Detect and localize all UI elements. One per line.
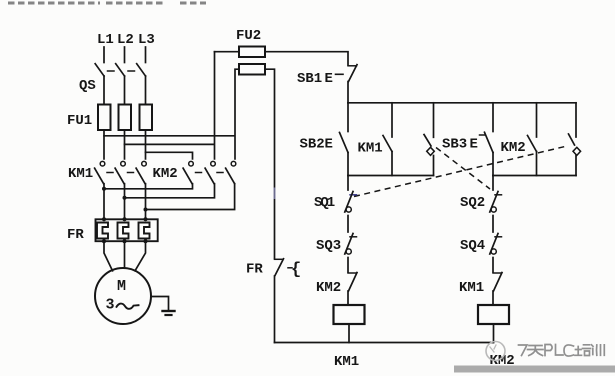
linkage dashed SQ2NO to SQ2: [436, 148, 490, 190]
wire control bottom bus left: [348, 175, 434, 177]
watermark grey bar: [454, 366, 615, 373]
svg-text:FU1: FU1: [67, 113, 92, 129]
svg-text:L2: L2: [117, 32, 134, 48]
label SQ1: [314, 195, 335, 211]
wire L1 stub: [103, 47, 105, 63]
wire L3 stub: [145, 47, 147, 63]
wire control top bus: [348, 102, 576, 104]
svg-text:FR: FR: [246, 262, 263, 278]
linkage dash SB1: [336, 73, 344, 75]
label SQ4: [460, 238, 485, 254]
label KM2 coil: [490, 353, 515, 369]
label KM1 (main): [68, 166, 93, 182]
svg-text:SB3: SB3: [442, 137, 467, 153]
svg-text:KM2: KM2: [501, 140, 526, 156]
cropped text remnant top edge: [8, 2, 206, 5]
label FR (control): [246, 262, 263, 278]
svg-text:QS: QS: [79, 78, 96, 94]
limit switch SQ1 NC: [345, 192, 357, 233]
contact SQ1 NO: [569, 103, 581, 176]
fuse FU1: [98, 105, 152, 131]
node L3: [138, 32, 155, 48]
wire KM1 outputs to FR: [104, 184, 146, 220]
watermark logo circle: [486, 342, 505, 361]
label FU1: [67, 113, 92, 129]
svg-text:E: E: [470, 137, 478, 153]
svg-text:L1: L1: [97, 32, 114, 48]
svg-text:KM2: KM2: [316, 280, 341, 296]
node L2: [117, 32, 134, 48]
wire phase bus A (L1 to KM2 pole3 and FU2): [104, 69, 239, 159]
button SB2 (NO start fwd): [340, 103, 349, 176]
svg-text:KM1: KM1: [334, 354, 359, 370]
label SB3: [442, 137, 478, 153]
label FU2: [236, 28, 261, 44]
svg-text:SQ4: SQ4: [460, 238, 485, 254]
contactor KM2 main poles: [183, 161, 236, 183]
wire FU2 fuse1 to SB1: [215, 52, 349, 65]
limit switch SQ4 NC: [490, 234, 502, 273]
svg-text:SQ3: SQ3: [316, 238, 341, 254]
svg-text:E: E: [325, 71, 333, 87]
svg-text:M: M: [117, 278, 126, 295]
switch QS: [95, 64, 145, 76]
svg-text:SB1: SB1: [297, 71, 322, 87]
svg-text:3: 3: [106, 297, 115, 314]
svg-text:L3: L3: [138, 32, 155, 48]
svg-text:KM1: KM1: [68, 166, 93, 182]
junction dots motor feed: [102, 187, 148, 243]
contact KM1 NC interlock: [493, 273, 502, 306]
svg-text:E: E: [325, 137, 333, 153]
button SB1 (NC stop): [348, 65, 357, 103]
wire KM2 output 3 crossover: [146, 184, 235, 210]
label KM1 coil: [334, 354, 359, 370]
fuse FU2: [239, 47, 265, 75]
ground: [163, 311, 175, 315]
linkage dash SB3: [480, 134, 485, 136]
wire FU2 fuse2 to FR rail: [265, 69, 275, 258]
wire coil KM1 to bottom bus: [348, 324, 350, 343]
contact KM2 aux NO: [528, 103, 537, 176]
contact SQ2 NO: [424, 103, 434, 176]
label QS: [79, 78, 96, 94]
svg-text:SQ1: SQ1: [314, 195, 335, 211]
svg-text:KM1: KM1: [358, 141, 383, 157]
contact KM2 NC interlock: [348, 273, 357, 306]
label SQ3: [316, 238, 341, 254]
svg-text:FR: FR: [67, 227, 84, 243]
button SB3 (NO start rev): [485, 103, 494, 176]
label 3~: [106, 297, 115, 314]
linkage dashed SQ1 to SQ1NO: [354, 147, 565, 197]
svg-text:KM2: KM2: [153, 166, 178, 182]
FR actuator bracket: [291, 261, 301, 280]
label SQ2: [460, 195, 485, 211]
label KM1 interlock: [459, 280, 484, 296]
label KM2 (main): [153, 166, 178, 182]
limit switch SQ3 NC: [345, 234, 357, 273]
contactor KM1 main poles: [95, 161, 147, 183]
thermal relay FR heaters: [96, 219, 158, 241]
wire control bottom bus: [275, 342, 494, 344]
wire motor to ground: [151, 297, 169, 310]
label KM1 aux: [358, 141, 383, 157]
label KM2 aux: [501, 140, 526, 156]
wire phase bus C (L3 to KM2 pole1): [146, 152, 193, 159]
label M: [117, 278, 126, 295]
coil KM1: [334, 305, 365, 324]
blue smudge artifact on rail: [274, 189, 276, 199]
wire phase bus B (L2 to KM2 pole2 and FU2): [125, 52, 215, 159]
label FR (main): [67, 227, 84, 243]
label SB2: [300, 137, 333, 153]
limit switch SQ2 NC: [490, 192, 502, 233]
wire right branch descent: [492, 176, 494, 191]
wire QS to FU1 (3): [104, 76, 146, 105]
svg-text:{: {: [291, 261, 301, 280]
wire FU1 to KM1 poles: [104, 130, 146, 159]
wire L2 stub: [124, 47, 126, 63]
svg-text:FU2: FU2: [236, 28, 261, 44]
wire KM2 output 2 crossover: [125, 184, 215, 198]
wire KM2 output 1 crossover: [104, 184, 193, 189]
wire FR to motor: [104, 241, 146, 271]
coil KM2: [478, 305, 509, 324]
contact FR NC (control): [275, 259, 293, 343]
label SB1: [297, 71, 333, 87]
wire coil KM2 to bottom bus: [493, 324, 495, 343]
label KM2 interlock: [316, 280, 341, 296]
wire control bottom bus right: [493, 175, 576, 177]
motor M: [95, 268, 151, 324]
watermark text 7天PLC培训: [519, 345, 605, 357]
svg-text:SQ2: SQ2: [460, 195, 485, 211]
wire left branch descent: [347, 176, 349, 191]
svg-text:SB2: SB2: [300, 137, 325, 153]
node L1: [97, 32, 114, 48]
svg-text:KM1: KM1: [459, 280, 484, 296]
contact KM1 aux NO: [383, 103, 392, 176]
